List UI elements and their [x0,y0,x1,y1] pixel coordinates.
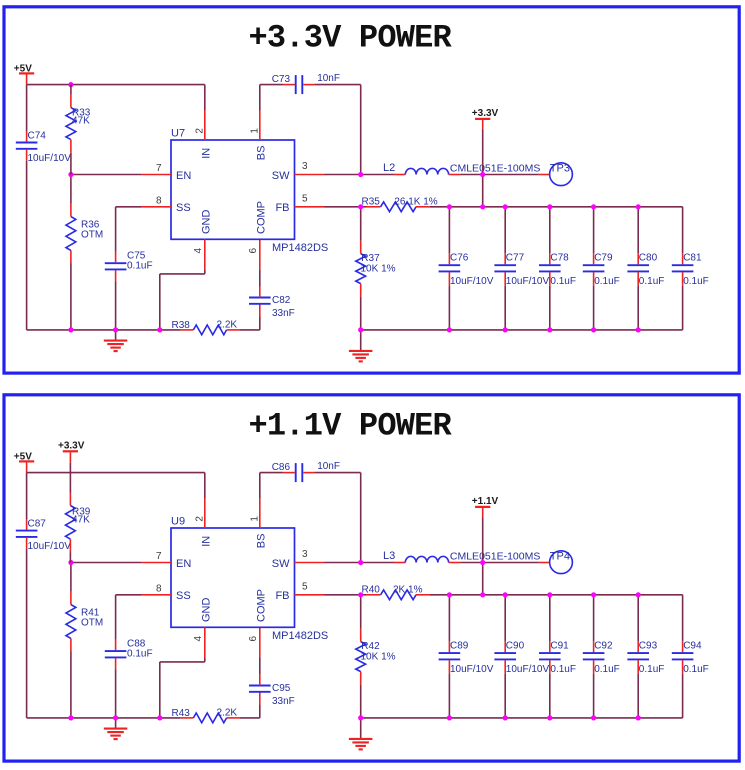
svg-text:SW: SW [272,170,290,182]
svg-text:47K: 47K [72,115,90,126]
svg-text:C76: C76 [450,253,469,264]
wire C73 to SW node [303,84,315,86]
svg-text:10nF: 10nF [317,73,340,84]
svg-text:+1.1V: +1.1V [472,496,499,507]
junction [636,592,641,597]
junction [358,172,363,177]
wire C73 to SW node [303,472,315,474]
wire +5V rail [27,84,205,86]
svg-text:C81: C81 [683,253,702,264]
resistor R43 2.2K [172,707,238,722]
wire GND pin 4 [204,239,206,269]
junction [358,204,363,209]
junction [547,327,552,332]
wire VOUT to output rail [482,518,484,595]
wire R38 to C82 [227,329,240,331]
junction [157,715,162,720]
capacitor C76 10uF/10V [439,207,494,330]
wire left rail upper [26,473,28,519]
capacitor C92 0.1uF [583,595,620,718]
svg-text:C93: C93 [639,641,658,652]
svg-text:C86: C86 [272,462,291,473]
capacitor C91 0.1uF [539,595,576,718]
wire IN pin 2 [204,473,206,498]
wire left rail lower [26,149,28,161]
junction [358,592,363,597]
wire SW pin 3 [295,174,325,176]
wire ground rail (right) [361,717,683,719]
wire L2 to TP [449,562,461,564]
wire BS pin 1 [259,85,261,110]
junction [480,204,485,209]
wire EN pin 7 [71,562,141,564]
resistor R36 OTM [66,175,103,330]
junction [591,715,596,720]
capacitor C94 0.1uF [672,595,709,718]
junction [68,560,73,565]
svg-text:GND: GND [200,598,212,623]
capacitor C73 10nF [272,73,340,94]
svg-text:10K 1%: 10K 1% [361,264,396,275]
resistor R40 2K 1% [362,584,423,599]
svg-text:FB: FB [275,590,289,602]
junction [480,560,485,565]
junction [113,327,118,332]
wire L2 to TP [449,174,461,176]
svg-text:BS: BS [255,534,267,549]
svg-text:R38: R38 [172,320,191,331]
svg-text:47K: 47K [72,515,90,526]
wire COMP pin to C82 [259,286,261,298]
junction [68,172,73,177]
wire BS to C73 [260,84,283,86]
junction [358,715,363,720]
svg-text:R40: R40 [362,584,381,595]
svg-text:0.1uF: 0.1uF [639,276,665,287]
wire left rail upper [26,85,28,131]
junction [358,327,363,332]
svg-text:10uF/10V: 10uF/10V [506,276,550,287]
wire ground rail (left) [27,717,181,719]
section border box (+1.1V POWER) [4,395,739,761]
svg-text:1: 1 [249,516,260,522]
svg-text:+3.3V: +3.3V [472,108,499,119]
svg-text:TP3: TP3 [550,162,570,174]
svg-text:COMP: COMP [255,201,267,234]
test point TP3 [550,162,573,185]
svg-text:6: 6 [248,636,259,642]
capacitor C74 10uF/10V [16,130,71,164]
svg-text:0.1uF: 0.1uF [550,664,576,675]
power symbol +1.1V [472,496,499,518]
wire SW pin 3 [295,562,325,564]
svg-text:C92: C92 [594,641,613,652]
capacitor C90 10uF/10V [494,595,549,718]
capacitor C75 0.1uF [105,250,153,271]
svg-text:C91: C91 [550,641,569,652]
junction [547,204,552,209]
junction [503,327,508,332]
resistor R39 47K [66,463,91,563]
svg-text:SS: SS [176,202,191,214]
svg-text:U7: U7 [171,128,185,140]
svg-text:R35: R35 [362,196,381,207]
svg-text:0.1uF: 0.1uF [127,260,153,271]
capacitor C93 0.1uF [627,595,664,718]
resistor R37 10K 1% [356,207,396,330]
svg-text:26.1K 1%: 26.1K 1% [394,197,437,208]
svg-text:2.2K: 2.2K [217,707,238,718]
junction [636,327,641,332]
section border box (+3.3V POWER) [4,7,739,373]
wire BS to C73 [260,472,283,474]
svg-text:10uF/10V: 10uF/10V [450,276,494,287]
junction [591,592,596,597]
wire C75 to ground rail [115,270,117,281]
resistor R38 2.2K [172,319,238,334]
svg-text:C78: C78 [550,253,569,264]
wire output rail [449,206,682,208]
junction [503,592,508,597]
capacitor C82 33nF [249,295,295,319]
svg-text:FB: FB [275,202,289,214]
svg-text:C77: C77 [506,253,525,264]
svg-text:SS: SS [176,590,191,602]
svg-text:2K 1%: 2K 1% [393,585,423,596]
svg-text:MP1482DS: MP1482DS [272,630,328,642]
wire EN pin 7 [71,174,141,176]
svg-text:L2: L2 [383,162,395,174]
svg-text:L3: L3 [383,550,395,562]
wire C75 to ground rail [115,658,117,669]
svg-text:GND: GND [200,210,212,235]
junction [358,560,363,565]
junction [68,82,73,87]
svg-text:0.1uF: 0.1uF [594,664,620,675]
svg-text:0.1uF: 0.1uF [683,276,709,287]
junction [480,172,485,177]
wire output rail [449,594,682,596]
junction [591,204,596,209]
svg-text:7: 7 [156,163,162,174]
svg-text:5: 5 [302,194,308,205]
wire +5V rail [27,472,205,474]
svg-text:1: 1 [249,128,260,134]
svg-text:33nF: 33nF [272,308,295,319]
svg-text:2.2K: 2.2K [217,319,238,330]
svg-text:8: 8 [156,196,162,207]
svg-text:C80: C80 [639,253,658,264]
junction [547,715,552,720]
power symbol +3.3V [472,108,499,130]
junction [636,715,641,720]
svg-text:SW: SW [272,558,290,570]
ground (left) [104,718,128,739]
junction [503,204,508,209]
svg-text:4: 4 [193,248,204,254]
svg-text:+1.1V POWER: +1.1V POWER [249,408,453,445]
svg-text:3: 3 [302,161,308,172]
svg-text:10uF/10V: 10uF/10V [28,541,72,552]
inductor L2 CMLE051E-100MS [383,162,540,175]
svg-text:EN: EN [176,558,191,570]
junction [636,204,641,209]
svg-text:2: 2 [194,516,205,522]
svg-text:R42: R42 [361,641,380,652]
op-amp/regulator IC U7 MP1482DS [171,128,328,255]
resistor R33 47K [66,85,91,175]
ground (right) [349,330,373,362]
svg-text:IN: IN [200,148,212,159]
wire IN pin 2 [204,85,206,110]
svg-text:OTM: OTM [81,618,103,629]
svg-text:BS: BS [255,146,267,161]
wire FB pin 5 [295,594,325,596]
op-amp/regulator IC U9 MP1482DS [171,516,328,643]
svg-text:C79: C79 [594,253,613,264]
svg-text:+3.3V POWER: +3.3V POWER [249,20,453,57]
svg-text:C94: C94 [683,641,702,652]
svg-text:C95: C95 [272,683,291,694]
svg-text:3: 3 [302,549,308,560]
wire VOUT to output rail [482,130,484,207]
svg-text:OTM: OTM [81,230,103,241]
junction [113,715,118,720]
svg-text:U9: U9 [171,516,185,528]
svg-text:10uF/10V: 10uF/10V [506,664,550,675]
wire FB pin 5 [295,206,325,208]
wire SS pin 8 [141,206,171,208]
junction [68,715,73,720]
ground (right) [349,718,373,750]
capacitor C79 0.1uF [583,207,620,330]
svg-text:C90: C90 [506,641,525,652]
ground (left) [104,330,128,351]
svg-text:4: 4 [193,636,204,642]
junction [480,592,485,597]
wire R38 to C82 [227,717,240,719]
svg-text:TP4: TP4 [550,550,570,562]
wire left rail lower [26,537,28,549]
svg-text:0.1uF: 0.1uF [683,664,709,675]
power symbol +5V [14,451,34,472]
wire COMP pin to C82 [259,674,261,686]
inductor L3 CMLE051E-100MS [383,550,540,563]
svg-text:8: 8 [156,584,162,595]
wire R35 to output rail [416,594,430,596]
svg-text:CMLE051E-100MS: CMLE051E-100MS [450,163,540,175]
svg-text:5: 5 [302,582,308,593]
svg-text:0.1uF: 0.1uF [127,648,153,659]
svg-text:IN: IN [200,536,212,547]
power symbol +5V [14,63,34,84]
junction [447,204,452,209]
capacitor C95 33nF [249,683,295,707]
svg-text:COMP: COMP [255,589,267,622]
svg-text:10nF: 10nF [317,461,340,472]
svg-text:C82: C82 [272,295,291,306]
junction [447,592,452,597]
svg-text:+3.3V: +3.3V [58,440,85,451]
capacitor C80 0.1uF [627,207,664,330]
wire ground rail (left) [27,329,181,331]
capacitor C88 0.1uF [105,638,153,659]
wire ground rail (right) [361,329,683,331]
resistor R42 10K 1% [356,595,396,718]
junction [447,715,452,720]
svg-text:CMLE051E-100MS: CMLE051E-100MS [450,551,540,563]
svg-text:R37: R37 [361,253,380,264]
svg-text:2: 2 [194,128,205,134]
capacitor C87 10uF/10V [16,518,71,552]
junction [503,715,508,720]
svg-text:MP1482DS: MP1482DS [272,242,328,254]
svg-text:C73: C73 [272,74,291,85]
wire BS pin 1 [259,473,261,498]
junction [157,327,162,332]
svg-text:33nF: 33nF [272,696,295,707]
svg-text:EN: EN [176,170,191,182]
svg-text:10uF/10V: 10uF/10V [450,664,494,675]
svg-text:10uF/10V: 10uF/10V [28,153,72,164]
svg-text:C87: C87 [28,518,47,529]
svg-text:R43: R43 [172,708,191,719]
capacitor C78 0.1uF [539,207,576,330]
svg-text:0.1uF: 0.1uF [639,664,665,675]
capacitor C81 0.1uF [672,207,709,330]
svg-text:0.1uF: 0.1uF [594,276,620,287]
wire SS pin 8 [141,594,171,596]
resistor R41 OTM [66,563,103,718]
capacitor C89 10uF/10V [439,595,494,718]
svg-text:7: 7 [156,551,162,562]
junction [591,327,596,332]
svg-text:C74: C74 [28,130,47,141]
svg-text:10K 1%: 10K 1% [361,652,396,663]
wire GND pin 4 [204,627,206,657]
svg-text:C89: C89 [450,641,469,652]
svg-text:0.1uF: 0.1uF [550,276,576,287]
capacitor C77 10uF/10V [494,207,549,330]
junction [447,327,452,332]
svg-text:6: 6 [248,248,259,254]
wire R35 to output rail [416,206,430,208]
junction [547,592,552,597]
test point TP4 [550,550,573,573]
junction [68,327,73,332]
power symbol +3.3V [58,440,85,462]
resistor R35 26.1K 1% [362,196,438,211]
capacitor C86 10nF [272,461,340,482]
